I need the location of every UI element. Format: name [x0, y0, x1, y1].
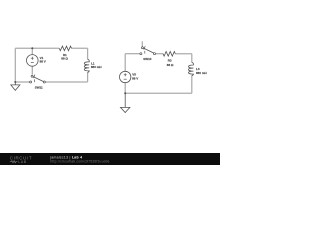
svg-text:88 V: 88 V [132, 76, 138, 80]
svg-text:SW10: SW10 [143, 57, 152, 61]
svg-text:88 V: 88 V [40, 59, 46, 63]
svg-text:880 mH: 880 mH [91, 65, 102, 69]
svg-text:LAB: LAB [18, 160, 26, 164]
svg-text:88 Ω: 88 Ω [61, 56, 68, 60]
svg-text:SW11: SW11 [35, 86, 43, 90]
svg-text:88 Ω: 88 Ω [167, 63, 174, 67]
svg-text:880 mH: 880 mH [196, 71, 207, 75]
svg-text:http://circuitlab.com/c97536f2: http://circuitlab.com/c97536f2uudde [50, 160, 109, 164]
